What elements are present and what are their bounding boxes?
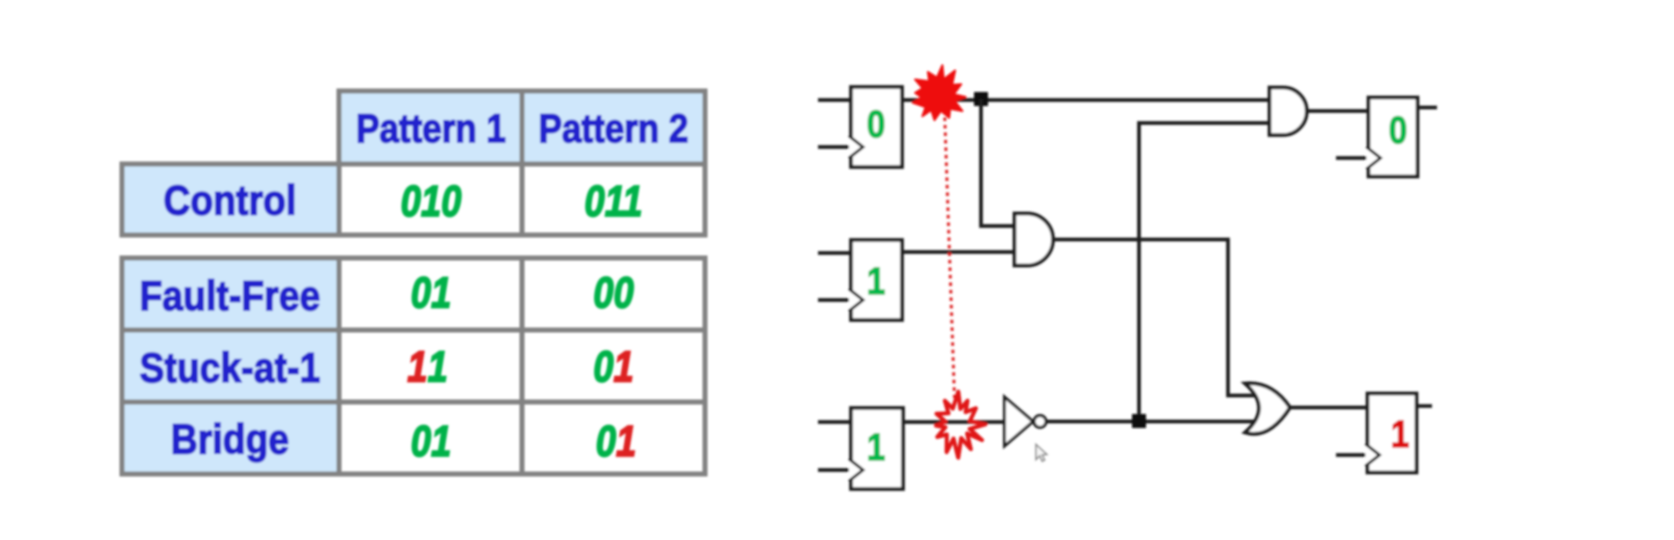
truth table Fault-Free label cell background — [122, 258, 338, 330]
AND gate U1 — [1015, 214, 1054, 266]
svg-text:Pattern 2: Pattern 2 — [539, 106, 689, 151]
svg-text:Bridge: Bridge — [171, 417, 289, 464]
junction node N1 — [974, 92, 988, 106]
table 1 grid borders — [122, 91, 705, 235]
truth table header row background — [339, 91, 705, 164]
wire AND U2 output to FF4 — [1307, 109, 1368, 113]
bridge fault dotted line — [945, 110, 955, 398]
svg-text:1: 1 — [867, 260, 885, 303]
truth table Bridge label cell background — [122, 402, 338, 474]
wire FF4 Q output stub — [1417, 106, 1437, 110]
wire node N2 up to AND gate U2 bottom input — [1139, 123, 1268, 415]
wire FF5 clock stub — [1336, 453, 1367, 457]
svg-text:Fault-Free: Fault-Free — [140, 273, 321, 320]
svg-text:11: 11 — [407, 342, 448, 391]
svg-text:01: 01 — [593, 342, 634, 391]
wire FF1 D input stub — [818, 98, 850, 102]
svg-text:Stuck-at-1: Stuck-at-1 — [140, 345, 321, 392]
flip-flop FF5 — [1366, 394, 1417, 473]
AND gate U2 — [1270, 88, 1307, 136]
wire FF3 Q output to inverter U3 — [903, 420, 1004, 424]
wire inverter U3 output to OR gate U4 bottom input (net N2) — [1046, 420, 1262, 424]
svg-text:01: 01 — [411, 268, 452, 317]
wire FF1 Q output to AND gate U2 top input (net N1) — [902, 98, 1268, 102]
wire OR U4 output to FF5 — [1290, 406, 1367, 410]
wire FF3 clock stub — [818, 468, 850, 472]
svg-text:Control: Control — [164, 178, 297, 225]
flip-flop FF2 — [849, 240, 902, 320]
wire FF2 D input stub — [818, 251, 850, 255]
flip-flop FF1 — [849, 87, 902, 167]
wire AND U1 output to vertical riser — [1053, 240, 1260, 396]
wire FF5 Q output stub — [1416, 404, 1432, 408]
svg-text:011: 011 — [584, 177, 642, 226]
OR gate U4 — [1245, 383, 1290, 434]
inverter U3 — [1005, 397, 1047, 446]
svg-text:Pattern 1: Pattern 1 — [356, 106, 506, 151]
wire node N1 down to AND gate U1 top input — [981, 99, 1013, 226]
flip-flop FF3 — [849, 408, 903, 489]
wire FF3 D input stub — [818, 420, 850, 424]
wire FF1 clock stub — [818, 145, 850, 149]
wire FF2 clock stub — [818, 298, 850, 302]
fault starburst F2 on FF3 output — [936, 392, 985, 458]
svg-text:00: 00 — [593, 268, 634, 317]
wire FF2 Q output to AND gate U1 bottom input — [902, 250, 1013, 254]
svg-text:1: 1 — [1391, 413, 1409, 456]
svg-text:010: 010 — [401, 177, 462, 226]
svg-text:0: 0 — [867, 103, 885, 146]
table 2 grid borders — [122, 258, 705, 474]
truth table Stuck-at-1 label cell background — [122, 330, 338, 402]
svg-text:0: 0 — [1389, 109, 1407, 152]
mouse cursor — [1036, 445, 1047, 462]
flip-flop FF4 — [1367, 98, 1418, 177]
truth table Control label cell background — [122, 164, 338, 235]
wire FF4 clock stub — [1336, 156, 1368, 160]
fault starburst F1 on net N1 — [913, 65, 966, 120]
svg-text:01: 01 — [596, 417, 637, 466]
junction node N2 — [1132, 414, 1146, 428]
svg-text:1: 1 — [867, 426, 885, 469]
svg-text:01: 01 — [411, 417, 452, 466]
